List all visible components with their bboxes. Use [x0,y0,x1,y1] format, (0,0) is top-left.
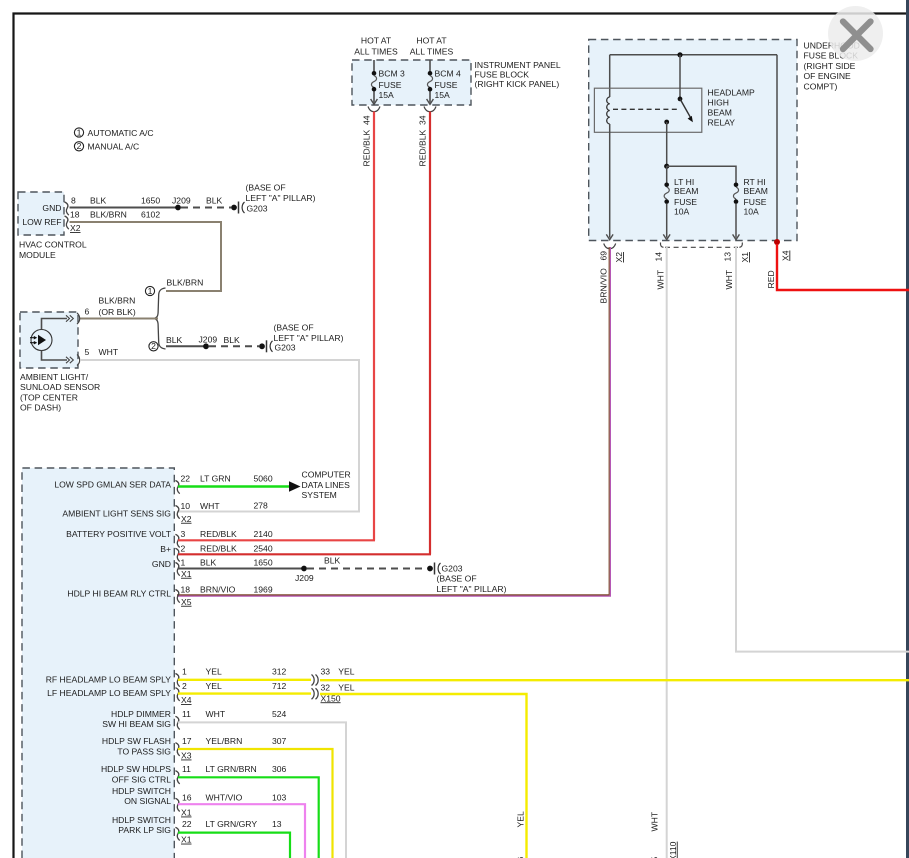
svg-text:6102: 6102 [141,210,160,220]
svg-text:(BASE OF: (BASE OF [246,183,286,193]
INSTRUMENT PANEL FUSE BLOCK box [352,60,561,105]
svg-text:WHT: WHT [655,269,665,289]
svg-text:HDLP SW FLASH: HDLP SW FLASH [102,736,171,746]
svg-text:712: 712 [272,681,287,691]
wire RED/BLK 44 [361,112,374,541]
wire from relay contact down [666,122,668,166]
pin 18 of HVAC [65,216,69,229]
node red terminal X4 [774,239,780,245]
relay switch blade [680,99,691,118]
svg-text:X2: X2 [181,514,192,524]
wire WHT 524 [178,722,346,858]
relay U1 HEADLAMP HIGH BEAM RELAY box [594,87,755,132]
svg-text:1650: 1650 [141,196,160,206]
svg-text:YEL: YEL [206,666,222,676]
svg-text:5: 5 [85,347,90,357]
svg-text:11: 11 [182,709,191,719]
svg-text:X5: X5 [181,597,192,607]
svg-text:LOW SPD GMLAN SER DATA: LOW SPD GMLAN SER DATA [54,479,171,489]
svg-text:BLK/BRN: BLK/BRN [167,278,204,288]
node junction on top rail [677,52,682,57]
svg-text:(BASE OF: (BASE OF [437,574,477,584]
svg-text:X1: X1 [181,835,192,845]
svg-text:(BASE OF: (BASE OF [274,323,314,333]
pin 5 of sensor [66,347,119,366]
svg-text:HVAC CONTROL: HVAC CONTROL [19,240,87,250]
svg-text:2540: 2540 [254,543,273,553]
svg-text:3: 3 [181,529,186,539]
close button [828,6,883,61]
svg-text:SW HI BEAM SIG: SW HI BEAM SIG [102,719,171,729]
svg-text:5060: 5060 [254,473,273,483]
svg-text:BEAM: BEAM [744,186,768,196]
svg-text:LEFT "A" PILLAR): LEFT "A" PILLAR) [437,584,507,594]
svg-text:MANUAL A/C: MANUAL A/C [88,142,140,152]
svg-text:RED/BLK: RED/BLK [417,129,427,166]
svg-text:HOT AT: HOT AT [361,36,392,46]
svg-text:HDLP SWITCH: HDLP SWITCH [112,786,171,796]
svg-text:22: 22 [181,473,191,483]
svg-text:WHT: WHT [724,269,734,289]
svg-text:14: 14 [654,252,664,262]
relay dashed actuator link [613,108,678,110]
fuse BCM 3 15A [371,60,405,104]
svg-text:X2: X2 [70,223,81,233]
sensor internal wires [42,319,68,361]
label HOT AT ALL TIMES (right) [410,36,454,57]
row GND pin 1 [152,557,273,579]
AMBIENT LIGHT/SUNLOAD SENSOR box [20,312,100,413]
wire WHT/VIO 103 [178,804,305,858]
svg-text:HDLP HI BEAM RLY CTRL: HDLP HI BEAM RLY CTRL [67,588,171,598]
svg-text:GND: GND [152,559,171,569]
svg-text:2: 2 [77,141,82,151]
svg-text:FUSE: FUSE [674,197,697,207]
row HDLP SW FLASH TO PASS SIG pin 17 [102,736,287,760]
svg-text:HOT AT: HOT AT [416,36,447,46]
svg-text:HDLP DIMMER: HDLP DIMMER [111,709,171,719]
row HDLP HI BEAM RLY CTRL pin 18 [67,584,272,607]
wire BLK/BRN (OR BLK) to sensor pin 6 [80,295,158,318]
fuse RT HI BEAM 10A [733,177,768,240]
HVAC CONTROL MODULE box [18,192,87,260]
row HDLP DIMMER SW HI BEAM SIG pin 11 [102,709,286,730]
svg-text:BLK: BLK [90,196,107,206]
svg-text:18: 18 [181,584,191,594]
wire LT GRN/BRN 306 [178,777,319,858]
row HDLP SWITCH PARK LP SIG pin 22 [112,815,282,845]
svg-text:1969: 1969 [254,584,273,594]
node 2 branch BLK [149,341,158,351]
brace merge of branches [154,288,166,349]
svg-text:YEL: YEL [338,682,354,692]
wire BLK 1650 from HVAC pin 8 [70,196,179,208]
svg-text:WHT/VIO: WHT/VIO [206,792,243,802]
svg-text:G203: G203 [275,343,296,353]
wire coil output down to box edge [609,124,611,238]
svg-text:GND: GND [42,203,61,213]
svg-text:(TOP CENTER: (TOP CENTER [20,392,78,402]
svg-text:13: 13 [272,819,282,829]
svg-text:X3: X3 [181,751,192,761]
svg-text:J209: J209 [199,334,218,344]
svg-text:18: 18 [70,210,80,220]
svg-text:HEADLAMP: HEADLAMP [708,87,756,97]
label WHT 5 X110 at bottom [650,811,678,858]
svg-text:278: 278 [254,500,269,510]
ground G203 (GND row) [427,563,506,595]
svg-text:WHT: WHT [650,811,660,831]
wire WHT 14 down to X110 [666,247,668,858]
svg-text:6: 6 [85,307,90,317]
row B+ pin 2 [160,543,273,561]
svg-text:LT GRN: LT GRN [200,473,231,483]
svg-text:103: 103 [272,792,287,802]
svg-text:X4: X4 [780,250,790,261]
wire BLK dashed to G203 (HVAC row) [181,196,231,208]
wire WHT 13 to right edge [736,247,909,652]
relay output contact [664,120,669,125]
node arrow to COMPUTER DATA LINES SYSTEM [289,470,351,501]
svg-text:32: 32 [321,682,331,692]
svg-text:FUSE BLOCK: FUSE BLOCK [475,69,530,79]
svg-text:(RIGHT SIDE: (RIGHT SIDE [804,61,856,71]
relay coil [607,97,610,124]
svg-text:BEAM: BEAM [708,108,732,118]
svg-text:2: 2 [151,341,156,351]
svg-text:RED/BLK: RED/BLK [361,129,371,166]
svg-text:13: 13 [722,252,732,262]
svg-text:WHT: WHT [206,709,226,719]
svg-text:LOW REF: LOW REF [22,217,61,227]
svg-text:HDLP SW HDLPS: HDLP SW HDLPS [101,764,171,774]
svg-text:ON SIGNAL: ON SIGNAL [124,796,171,806]
svg-text:WHT: WHT [200,501,220,511]
wire YEL 312 [178,679,311,681]
svg-text:8: 8 [71,196,76,206]
wire to LT fuse [666,166,668,185]
relay switch common [679,55,681,99]
row RF HEADLAMP LO BEAM SPLY pin 1 [46,666,287,686]
svg-text:BLK: BLK [224,335,241,345]
connector cup under coil output [604,244,616,249]
wire BLK 1650 [178,568,304,570]
row LOW SPD GMLAN SER DATA pin 22 [54,473,273,493]
row AMBIENT LIGHT SENS SIG pin 10 [62,500,268,523]
ground G203 (sensor row) [259,323,343,353]
pin 6 of sensor [66,313,80,324]
label HOT AT ALL TIMES (left) [354,36,398,57]
wire BRN/VIO 1969 relay control [177,247,610,596]
svg-text:YEL: YEL [206,681,222,691]
label YEL pin at bottom [515,811,525,858]
label RED X4 [766,250,790,288]
svg-text:FUSE: FUSE [379,80,402,90]
svg-text:BLK: BLK [324,555,341,565]
svg-text:LT GRN/BRN: LT GRN/BRN [206,764,257,774]
svg-text:69: 69 [598,251,608,261]
connector X150 pin 33 [312,666,355,685]
svg-text:AMBIENT LIGHT SENS SIG: AMBIENT LIGHT SENS SIG [62,508,171,518]
svg-text:2: 2 [181,543,186,553]
wire top rail inside underhood block [610,54,777,56]
row HDLP SW HDLPS OFF SIG CTRL pin 11 [101,764,287,784]
svg-text:X1: X1 [740,252,750,263]
svg-text:(OR BLK): (OR BLK) [99,307,136,317]
node legend-1 AUTOMATIC A/C [74,127,153,137]
node 1 branch label BLK/BRN [145,278,203,296]
svg-text:WHT: WHT [99,347,119,357]
svg-text:BEAM: BEAM [674,186,698,196]
fuse BCM 4 15A [427,60,461,104]
wire RED/BLK 2140 [178,539,375,541]
svg-text:YEL: YEL [515,811,525,827]
row LF HEADLAMP LO BEAM SPLY pin 2 [47,681,286,705]
svg-text:10A: 10A [744,207,760,217]
svg-text:RED: RED [766,270,776,288]
svg-text:34: 34 [417,115,427,125]
wire left vertical to coil [609,55,611,97]
svg-text:BATTERY POSITIVE VOLT: BATTERY POSITIVE VOLT [66,529,172,539]
svg-text:HDLP SWITCH: HDLP SWITCH [112,815,171,825]
svg-text:BLK: BLK [200,557,217,567]
fuse LT HI BEAM 10A [663,177,698,240]
connector dashed bracket X1 [660,243,663,248]
svg-text:FUSE: FUSE [435,80,458,90]
svg-text:OFF SIG CTRL: OFF SIG CTRL [112,775,171,785]
LEFT MODULE big box (BCM) [22,468,174,858]
svg-text:TO PASS SIG: TO PASS SIG [117,747,171,757]
svg-text:RED/BLK: RED/BLK [200,543,237,553]
svg-text:AUTOMATIC A/C: AUTOMATIC A/C [88,128,154,138]
wire BLK dashed to G203 (sensor row) [209,335,259,346]
svg-text:ALL TIMES: ALL TIMES [410,47,454,57]
svg-text:G203: G203 [442,564,463,574]
svg-text:BLK: BLK [166,335,183,345]
svg-text:HIGH: HIGH [708,97,729,107]
svg-text:BRN/VIO: BRN/VIO [200,584,236,594]
wire YEL 712 [178,692,311,694]
svg-text:FUSE: FUSE [744,197,767,207]
svg-text:J209: J209 [172,196,191,206]
svg-text:BCM 3: BCM 3 [379,69,405,79]
svg-text:YEL/BRN: YEL/BRN [206,736,243,746]
svg-text:BLK/BRN: BLK/BRN [99,295,136,305]
svg-text:2140: 2140 [254,529,273,539]
svg-text:LEFT "A" PILLAR): LEFT "A" PILLAR) [246,193,316,203]
connector cup under BCM3 fuse [368,107,380,112]
photodiode symbol [30,330,52,351]
ground G203 (HVAC row) [231,183,315,214]
svg-text:1: 1 [148,286,153,296]
svg-text:BCM 4: BCM 4 [435,69,461,79]
svg-text:2: 2 [182,681,187,691]
node legend-2 MANUAL A/C [74,141,139,151]
splice J209 (sensor row) [199,334,218,349]
svg-text:ALL TIMES: ALL TIMES [354,47,398,57]
label WHT 13 X1 [722,252,750,290]
splice J209 (GND row) [295,566,314,584]
UNDERHOOD FUSE BLOCK box [589,40,860,241]
svg-text:RELAY: RELAY [708,118,736,128]
svg-text:INSTRUMENT PANEL: INSTRUMENT PANEL [475,60,561,70]
svg-text:X1: X1 [181,569,192,579]
svg-text:10A: 10A [674,207,690,217]
label 69 X2 BRN/VIO [598,251,624,304]
svg-text:BLK: BLK [206,196,223,206]
svg-text:524: 524 [272,709,287,719]
svg-text:1650: 1650 [254,557,273,567]
svg-text:10: 10 [181,501,191,511]
svg-text:X110: X110 [668,841,678,858]
svg-text:16: 16 [182,792,192,802]
connector X150 pin 32 [312,682,355,703]
svg-text:SUNLOAD SENSOR: SUNLOAD SENSOR [20,382,100,392]
svg-text:DATA LINES: DATA LINES [302,480,351,490]
wire right vertical RED feed [776,55,778,241]
svg-text:OF ENGINE: OF ENGINE [804,71,852,81]
svg-text:17: 17 [182,736,192,746]
splice J209 (HVAC row) [172,196,191,211]
svg-text:AMBIENT LIGHT/: AMBIENT LIGHT/ [20,372,89,382]
wire RED/BLK 2540 [178,553,431,555]
svg-text:44: 44 [361,115,371,125]
wire LT GRN/GRY 13 [178,833,290,858]
wire BLK/BRN 6102 from HVAC pin 18 [70,210,222,292]
svg-text:11: 11 [182,764,191,774]
wire LT GRN 5060 [178,485,289,487]
svg-text:1: 1 [77,127,82,137]
svg-text:COMPUTER: COMPUTER [302,470,351,480]
svg-text:LF HEADLAMP LO BEAM SPLY: LF HEADLAMP LO BEAM SPLY [47,688,171,698]
svg-text:COMPT): COMPT) [804,82,838,92]
node junction above LT fuse [664,164,669,169]
svg-text:LT GRN/GRY: LT GRN/GRY [206,819,258,829]
connector cup under BCM4 fuse [424,107,436,112]
wire YEL/BRN 307 [178,749,333,858]
svg-text:22: 22 [182,819,192,829]
svg-text:1: 1 [181,557,186,567]
svg-text:33: 33 [321,666,331,676]
svg-text:SYSTEM: SYSTEM [302,490,337,500]
svg-text:X1: X1 [181,808,192,818]
svg-text:1: 1 [182,666,187,676]
svg-text:X4: X4 [181,695,192,705]
svg-text:(RIGHT KICK PANEL): (RIGHT KICK PANEL) [475,79,560,89]
svg-text:OF DASH): OF DASH) [20,403,61,413]
wire YEL to right edge [320,679,909,681]
svg-text:YEL: YEL [338,666,354,676]
svg-text:J209: J209 [295,573,314,583]
svg-text:B+: B+ [160,544,171,554]
svg-text:G203: G203 [247,204,268,214]
svg-text:X2: X2 [614,252,624,263]
svg-text:307: 307 [272,736,287,746]
svg-text:PARK LP SIG: PARK LP SIG [118,825,171,835]
wire WHT from sensor pin 5 to box pin 10 [80,360,359,512]
svg-text:312: 312 [272,666,287,676]
row HDLP SWITCH ON SIGNAL pin 16 [112,786,287,818]
wire BLK branch 2 [166,335,206,346]
wire YEL down at X150 [320,694,527,858]
right window edge bar [906,0,909,858]
svg-text:RF HEADLAMP LO BEAM SPLY: RF HEADLAMP LO BEAM SPLY [46,674,172,684]
svg-text:306: 306 [272,764,287,774]
svg-text:15A: 15A [435,90,451,100]
svg-text:15A: 15A [379,90,395,100]
svg-text:RED/BLK: RED/BLK [200,529,237,539]
wire RED/BLK 34 [417,112,430,555]
wire RED to right edge [777,244,909,290]
row BATTERY POSITIVE VOLT pin 3 [66,529,273,548]
pin 8 of HVAC [65,202,69,215]
svg-text:BRN/VIO: BRN/VIO [598,268,608,304]
wire branch to RT fuse [667,166,736,185]
svg-text:BLK/BRN: BLK/BRN [90,210,127,220]
svg-text:MODULE: MODULE [19,250,56,260]
svg-text:LEFT "A" PILLAR): LEFT "A" PILLAR) [274,333,344,343]
